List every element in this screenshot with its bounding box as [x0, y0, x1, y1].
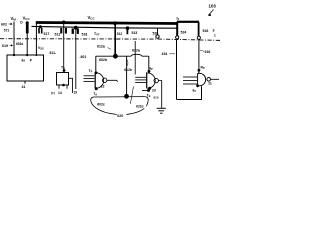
- transistor gate bar middle: [95, 72, 96, 88]
- label 612b: [124, 60, 132, 72]
- svg-text:103: 103: [209, 4, 217, 9]
- svg-text:619: 619: [2, 44, 8, 48]
- svg-text:513: 513: [132, 31, 138, 35]
- svg-text:517: 517: [44, 32, 50, 36]
- label 619 arrow: [2, 44, 13, 48]
- nand gate body: [198, 73, 206, 86]
- label 602c: [97, 101, 108, 106]
- node dot gate bottom: [196, 84, 199, 87]
- wire 622a vertical: [134, 41, 136, 75]
- svg-text:VCC: VCC: [23, 16, 31, 22]
- svg-text:571: 571: [4, 28, 10, 32]
- svg-text:VSS: VSS: [38, 46, 44, 51]
- node dot Ts: [63, 69, 66, 72]
- wire 616 vertical: [198, 40, 200, 74]
- pad circle x177: [176, 36, 179, 39]
- node dot bus x115: [113, 21, 117, 25]
- gate D-arc right: [148, 73, 156, 88]
- node dot line2 x76.5: [74, 26, 78, 30]
- wire stub x157.5: [157, 28, 159, 35]
- svg-text:21: 21: [208, 82, 212, 86]
- svg-text:P: P: [30, 59, 33, 63]
- node big dot x126.8: [124, 94, 129, 99]
- svg-text:22: 22: [101, 84, 105, 88]
- node dot box pin1: [13, 54, 15, 56]
- node dot small box bottom: [62, 84, 65, 87]
- svg-text:14: 14: [58, 91, 62, 95]
- wire blob to box: [26, 33, 28, 55]
- wire feedback bottom: [177, 86, 202, 99]
- figure number 103: [208, 4, 217, 17]
- svg-text:41: 41: [22, 85, 26, 89]
- svg-text:616: 616: [205, 50, 211, 54]
- small box right pin wire: [69, 78, 73, 93]
- svg-text:615: 615: [154, 96, 159, 100]
- node dot bus x63.5: [62, 21, 66, 25]
- pad circle x157.5: [156, 35, 159, 38]
- svg-text:524: 524: [181, 31, 187, 35]
- transistor blob A: [38, 28, 42, 34]
- annotation arc 620: [91, 97, 149, 115]
- wire y90.5 to Tb dot: [142, 90, 150, 92]
- svg-text:19: 19: [74, 91, 78, 95]
- wire output right cluster: [159, 81, 162, 109]
- wire output middle cluster: [107, 80, 118, 81]
- svg-text:434: 434: [162, 52, 168, 56]
- svg-text:602b: 602b: [99, 58, 107, 62]
- transistor blob left tall: [26, 21, 29, 24]
- svg-text:VM: VM: [11, 16, 17, 22]
- transistor cluster right bars: [135, 77, 146, 82]
- wire x76.5: [75, 27, 77, 89]
- svg-text:-601: -601: [80, 55, 87, 59]
- svg-text:611-: 611-: [50, 51, 57, 55]
- bus step segment right: [177, 21, 199, 23]
- node dot box pin2: [26, 54, 28, 56]
- svg-text:3: 3: [213, 29, 215, 33]
- nand bubble: [207, 78, 211, 82]
- label 612a arrow: [97, 45, 111, 50]
- svg-text:θs: θs: [22, 59, 26, 63]
- wire bus left corner down: [35, 23, 37, 56]
- svg-text:1: 1: [214, 34, 216, 38]
- node dot Tb: [147, 89, 150, 92]
- transistor gate bar right: [146, 72, 147, 88]
- wire gate feed x149: [148, 56, 150, 73]
- svg-text:602c: 602c: [97, 103, 105, 107]
- node dot Tp: [95, 71, 98, 74]
- wire nand output: [211, 78, 219, 80]
- label 434: [162, 52, 176, 56]
- label 616: [200, 50, 211, 54]
- svg-text:622a: 622a: [132, 49, 140, 53]
- ground symbol: [157, 108, 166, 113]
- block small box Ts: [57, 73, 69, 86]
- svg-text:D: D: [20, 21, 23, 25]
- rail line2: [32, 26, 177, 28]
- wire slant: [130, 87, 133, 104]
- gate D-arc middle: [96, 73, 104, 88]
- svg-text:TA: TA: [93, 92, 97, 97]
- transistor cluster middle bars: [84, 76, 95, 82]
- small box bottom pins: [58, 85, 60, 89]
- transistor blob C: [72, 28, 79, 34]
- wire x63.5: [63, 22, 65, 72]
- svg-text:TVT: TVT: [94, 32, 100, 37]
- wire 434 long vertical: [176, 40, 178, 100]
- node dot line2 x127.5: [126, 26, 130, 30]
- svg-text:TS: TS: [61, 65, 65, 70]
- svg-text:516: 516: [203, 29, 209, 33]
- svg-text:612b: 612b: [124, 68, 132, 72]
- svg-text:602: 602: [1, 23, 7, 27]
- svg-text:[1]: [1]: [51, 91, 55, 95]
- wire stub thick x198.6: [198, 22, 200, 36]
- label 602 arrow left: [1, 23, 12, 27]
- power bus VM thick: [36, 23, 178, 24]
- nand input bars: [183, 77, 197, 84]
- wire stub thick x177: [176, 22, 178, 36]
- wire horizontal y56.7 with hop: [96, 54, 149, 56]
- node big dot x115: [113, 54, 118, 59]
- svg-text:518: 518: [82, 32, 88, 36]
- wire Tp gate feed: [95, 56, 97, 73]
- svg-text:TP: TP: [89, 69, 93, 74]
- node dot box pin3: [35, 54, 37, 56]
- svg-text:620: 620: [117, 114, 123, 118]
- wire VM vertical: [13, 22, 15, 56]
- transistor blob B: [60, 28, 67, 34]
- svg-text:θ3: θ3: [193, 89, 197, 94]
- svg-text:511: 511: [55, 33, 61, 37]
- transistor stub thick x127.5: [126, 28, 128, 34]
- svg-text:I1: I1: [177, 16, 180, 22]
- svg-text:RP: RP: [201, 66, 205, 71]
- node dot blob A: [39, 25, 42, 28]
- svg-text:VCC: VCC: [88, 15, 96, 21]
- svg-text:23: 23: [152, 88, 156, 92]
- pad circle x198.6: [197, 36, 200, 39]
- node dot right gate bottom: [148, 87, 151, 90]
- wire thick x115 down: [114, 23, 116, 56]
- svg-text:621b: 621b: [136, 105, 143, 109]
- label 621b: [136, 103, 146, 108]
- node dot Rp: [198, 69, 201, 72]
- block big box left: [7, 55, 44, 81]
- svg-text:602a: 602a: [16, 42, 23, 46]
- box bottom tick: [24, 81, 26, 84]
- gate bubble right: [154, 78, 158, 82]
- svg-text:512: 512: [117, 32, 123, 36]
- svg-text:612a: 612a: [97, 45, 105, 49]
- gate bubble middle: [103, 78, 107, 82]
- wire branch down x126.8: [126, 56, 128, 96]
- label 620: [117, 112, 127, 117]
- node dot Np: [148, 70, 151, 73]
- boundary dash-dot line: [0, 39, 221, 41]
- node dot Ta: [95, 87, 98, 90]
